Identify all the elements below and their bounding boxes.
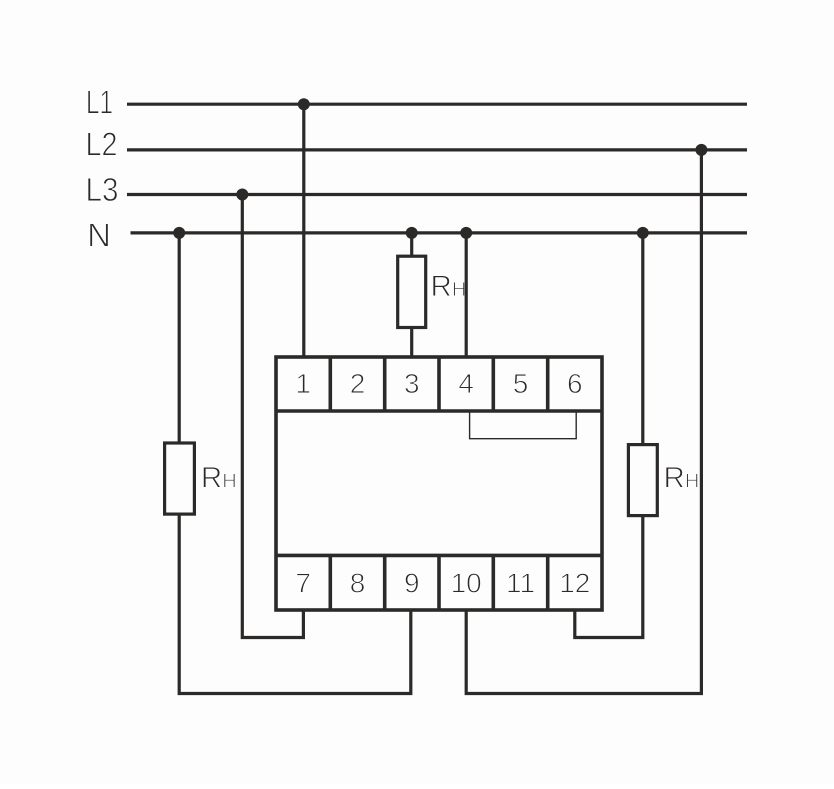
svg-text:3: 3: [404, 368, 420, 399]
node junction on L2: [695, 144, 707, 156]
wire L3 to terminal 7: [242, 195, 303, 638]
svg-text:5: 5: [513, 368, 529, 399]
bottom terminal row top edge: [276, 554, 602, 558]
wire N to right resistor: [641, 233, 644, 445]
svg-text:L2: L2: [86, 126, 118, 163]
svg-text:9: 9: [404, 568, 420, 599]
top terminal row bottom edge: [276, 409, 602, 413]
node junction on N left: [173, 227, 185, 239]
svg-text:12: 12: [559, 568, 590, 599]
bottom terminal dividers: [330, 555, 547, 610]
node junction on N right: [637, 227, 649, 239]
wire L2 line: [127, 148, 747, 151]
node junction on N middle: [406, 227, 418, 239]
svg-text:6: 6: [567, 368, 583, 399]
wire L3 line: [127, 193, 747, 196]
wire L2 to terminal 10: [466, 150, 701, 694]
wire left resistor to terminal 9: [179, 514, 411, 693]
resistor RH top: [398, 256, 426, 327]
node junction on N terminal 4: [460, 227, 472, 239]
device module body outline: [276, 357, 602, 610]
node junction on L3: [236, 189, 248, 201]
svg-text:8: 8: [350, 568, 366, 599]
wire L1 line: [127, 103, 747, 106]
svg-text:10: 10: [451, 568, 482, 599]
svg-text:2: 2: [350, 368, 366, 399]
internal link terminal 4 to terminal 6: [470, 411, 577, 439]
resistor RH left: [165, 443, 195, 514]
svg-text:RH: RH: [664, 461, 700, 494]
wire N line: [131, 231, 748, 234]
svg-text:11: 11: [506, 568, 535, 599]
svg-text:4: 4: [458, 368, 474, 399]
wire right resistor to terminal 12: [575, 516, 643, 638]
wire N to terminal 4: [465, 233, 468, 357]
top terminal dividers: [330, 357, 547, 411]
wire top resistor to terminal 3: [410, 328, 413, 358]
svg-text:L1: L1: [86, 84, 113, 121]
resistor RH right: [628, 445, 657, 516]
svg-text:1: 1: [295, 368, 311, 399]
svg-text:RH: RH: [201, 461, 237, 494]
wire N to left resistor: [178, 233, 181, 443]
node junction on L1: [298, 98, 310, 110]
svg-text:RH: RH: [431, 270, 467, 303]
svg-text:L3: L3: [86, 171, 119, 208]
svg-text:7: 7: [295, 568, 311, 599]
wire L1 to terminal 1: [302, 104, 305, 357]
svg-text:N: N: [87, 217, 111, 254]
wire N to top resistor: [410, 233, 413, 256]
